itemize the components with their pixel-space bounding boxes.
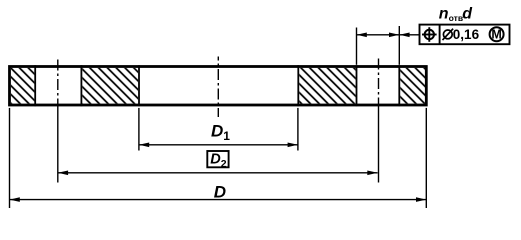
svg-text:0,16: 0,16 [453,27,480,42]
arrowhead d right [389,33,399,38]
hatch left rim segment [11,68,35,104]
hatch right rim segment [400,68,425,104]
extension line d left [356,28,358,65]
extension line D right [425,108,427,208]
extension line d right [398,26,400,65]
diameter symbol [443,29,454,40]
arrowhead D1 left [139,143,149,148]
flange section outline [10,67,427,106]
bore left edge [138,65,140,106]
left bolt hole right edge [80,65,82,106]
arrowhead D2 left [58,171,68,176]
arrowhead D2 right [367,171,377,176]
svg-text:nотвd: nотвd [439,6,473,23]
extension line D1 left [138,108,140,151]
left bolt hole left edge [34,65,36,106]
left bolt center extension line to D2 [57,106,59,183]
right bolt hole right edge [398,65,400,106]
dimension line D1 [139,144,298,146]
dimension line D [10,199,427,201]
extension line D left [9,108,11,208]
tolerance frame [420,25,510,45]
right bolt hole left edge [356,65,358,106]
left bolt hole centerline [57,60,59,107]
hatch left inner segment [82,68,138,104]
extension line D1 right [297,108,299,151]
arrowhead D right [416,197,426,202]
arrowhead D1 right [288,143,298,148]
tolerance frame divider [439,25,441,45]
dimension line D2 [58,172,378,174]
hatch right inner segment [299,68,355,104]
right bolt center extension line to D2 [378,106,380,183]
bore right edge [297,65,299,106]
main centerline [217,57,219,118]
dimension line d [357,34,400,36]
arrowhead d left [357,33,367,38]
frame around label D2 [207,151,228,167]
maximum material condition symbol M [490,27,504,42]
svg-text:D1: D1 [211,121,230,143]
svg-text:D: D [214,183,226,202]
leader arrowhead [399,33,409,38]
arrowhead D left [10,197,20,202]
leader line from tolerance frame [399,34,420,36]
position tolerance symbol [422,27,437,42]
right bolt hole centerline [378,59,380,107]
svg-text:M: M [491,28,501,42]
